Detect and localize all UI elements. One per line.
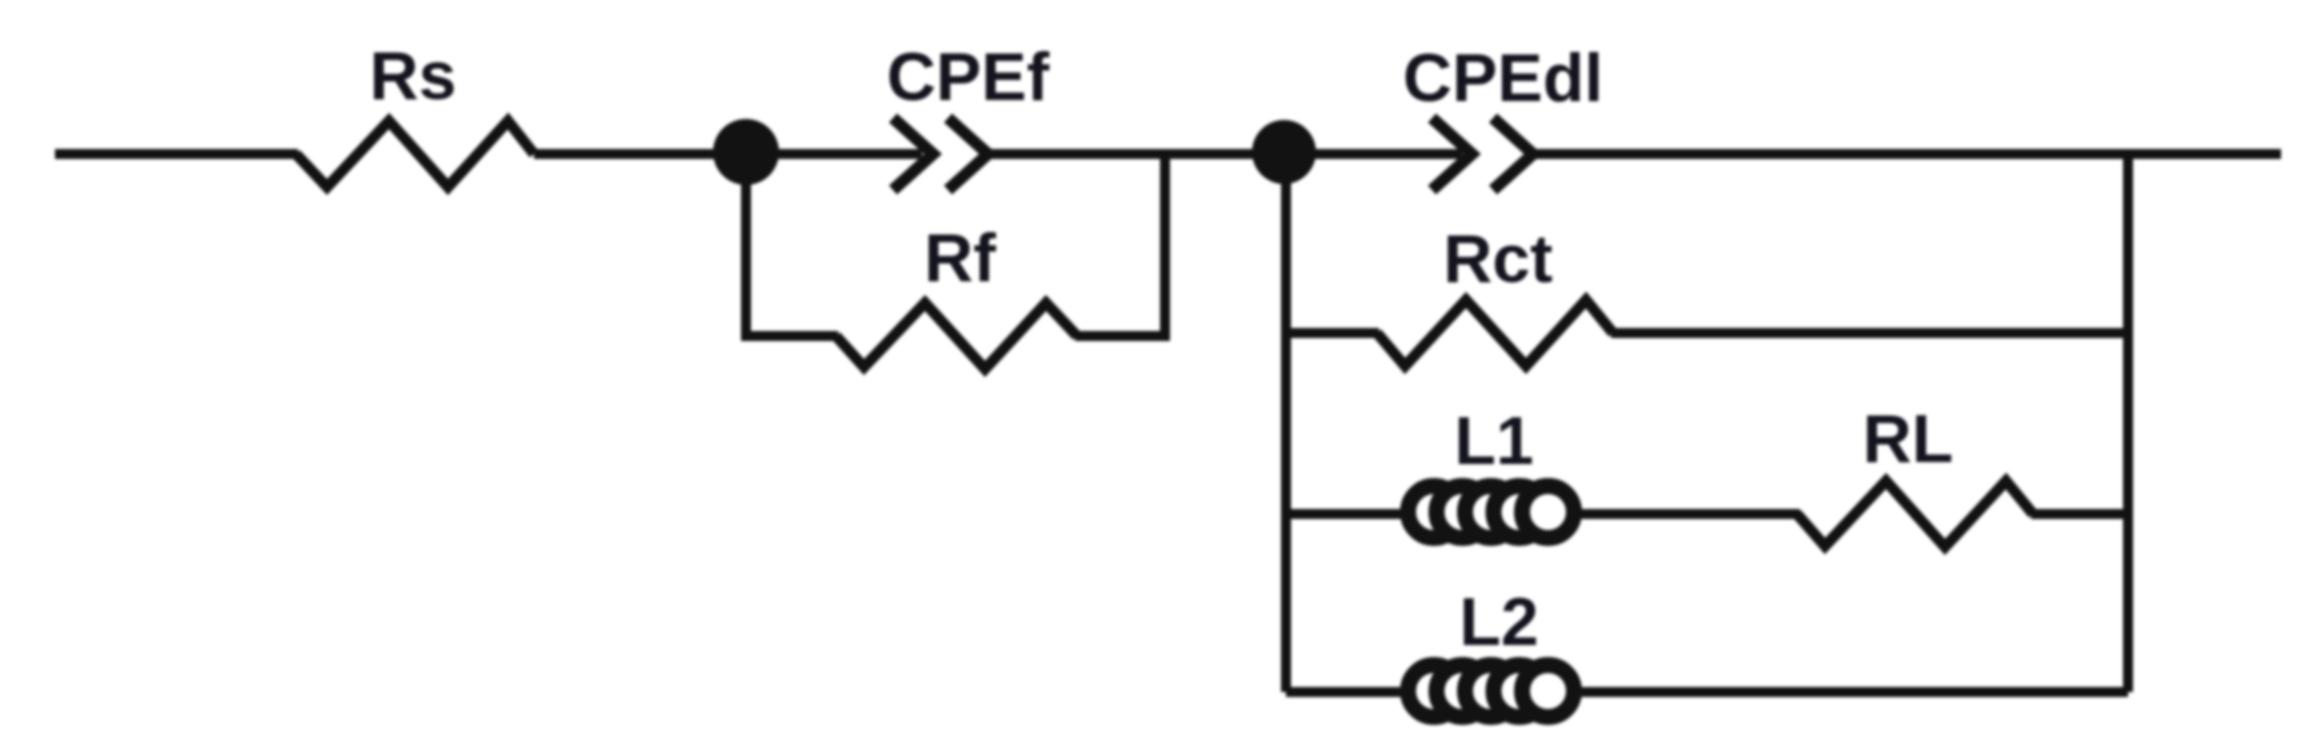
capacitor CPEf chevron 2: [948, 118, 988, 190]
resistor RL: [1797, 481, 2033, 547]
wire input lead left: [55, 149, 298, 159]
resistor Rct: [1377, 300, 1613, 366]
wire parallel bus down from node B: [1281, 152, 1291, 692]
wire L1 branch lead: [1286, 509, 1800, 519]
wire Rs to node A: [534, 149, 922, 159]
wire CPEf to node B: [988, 149, 1286, 159]
node B junction dot: [1252, 120, 1316, 184]
svg-text:CPEdl: CPEdl: [1403, 40, 1603, 116]
wire RL right lead: [2031, 509, 2128, 519]
wire right bus vertical: [2123, 154, 2133, 692]
capacitor CPEdl chevron 1: [1432, 118, 1472, 190]
wire L2 branch lead: [1286, 687, 2128, 697]
capacitor CPEdl chevron 2: [1493, 118, 1533, 190]
resistor Rs: [296, 121, 534, 187]
inductor L1: [1408, 486, 1574, 538]
resistor Rf: [836, 303, 1077, 369]
svg-text:Rct: Rct: [1443, 221, 1553, 297]
inductor L2: [1408, 665, 1574, 717]
svg-text:CPEf: CPEf: [887, 39, 1050, 115]
svg-text:Rf: Rf: [924, 220, 996, 296]
wire Rct right lead: [1611, 328, 2128, 338]
wire node B to CPEdl: [1286, 149, 1462, 159]
wire CPEdl to right end: [1533, 149, 2281, 159]
svg-text:L1: L1: [1454, 403, 1533, 479]
wire Rf loop left drop from node A: [746, 152, 838, 336]
wire Rf right lead up to main wire: [1075, 149, 1165, 336]
svg-text:Rs: Rs: [370, 38, 457, 114]
svg-text:RL: RL: [1863, 401, 1954, 477]
svg-text:L2: L2: [1459, 584, 1538, 660]
capacitor CPEf chevron 1: [893, 118, 933, 190]
wire Rct left lead: [1286, 328, 1379, 338]
node A junction dot: [713, 119, 779, 185]
